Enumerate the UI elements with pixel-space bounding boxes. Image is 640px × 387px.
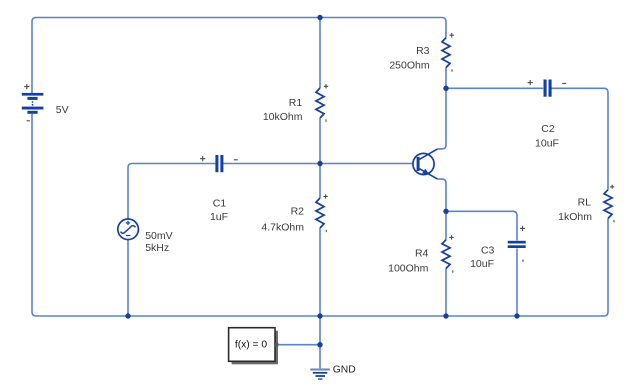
- svg-text:1uF: 1uF: [210, 211, 228, 223]
- transistor Q1 emitter lead: [420, 169, 438, 179]
- wire R1 bottom to node base: [319, 118, 321, 164]
- svg-text:4.7kOhm: 4.7kOhm: [261, 222, 304, 234]
- RL minus tick: [613, 220, 615, 222]
- node base / C1 / R1 / R2: [317, 161, 322, 166]
- svg-text:250Ohm: 250Ohm: [389, 60, 430, 72]
- battery plus mark: [24, 84, 29, 89]
- svg-text:R1: R1: [289, 97, 303, 109]
- svg-text:C2: C2: [541, 123, 555, 135]
- svg-text:R3: R3: [416, 45, 430, 57]
- battery V1 5V: [22, 93, 44, 114]
- C3 minus tick: [522, 260, 524, 262]
- svg-text:C3: C3: [481, 245, 495, 257]
- wire base node to transistor base: [320, 163, 413, 165]
- R3 plus mark: [450, 33, 454, 37]
- capacitor C1 plates: [215, 155, 223, 172]
- capacitor C2 plates: [544, 80, 552, 97]
- svg-text:10uF: 10uF: [470, 258, 494, 270]
- ac source V2: [118, 219, 139, 240]
- svg-text:1kOhm: 1kOhm: [558, 211, 592, 223]
- C2 minus mark: [562, 82, 566, 84]
- wire collector node to C2 left: [446, 87, 543, 89]
- svg-text:5V: 5V: [56, 104, 69, 116]
- svg-text:f(x) = 0: f(x) = 0: [235, 340, 268, 351]
- node R3 / C2 / collector: [443, 86, 448, 91]
- wire R4 bottom to bottom rail: [445, 269, 447, 317]
- svg-text:GND: GND: [333, 364, 356, 375]
- R2 plus mark: [323, 194, 327, 198]
- RL plus mark: [610, 185, 614, 189]
- C1 minus mark: [234, 159, 238, 161]
- svg-text:RL: RL: [578, 197, 592, 209]
- wire f(x) box to gnd column: [278, 344, 320, 346]
- ground symbol: [310, 370, 330, 380]
- battery minus mark: [27, 120, 30, 122]
- wire emitter node to R4 top: [445, 211, 447, 239]
- wire bottom rail to ground: [319, 316, 321, 368]
- C3 plus mark: [520, 226, 525, 231]
- svg-text:5kHz: 5kHz: [145, 242, 169, 254]
- R4 minus tick: [452, 270, 454, 272]
- wire C1 right to base node: [223, 163, 320, 165]
- resistor R3: [442, 38, 450, 68]
- C2 plus mark: [528, 80, 533, 85]
- transistor Q1 circle: [413, 153, 434, 174]
- R2 minus tick: [325, 230, 327, 232]
- resistor RL: [604, 190, 612, 219]
- transistor Q1 emitter arrow: [422, 169, 430, 175]
- svg-text:10kOhm: 10kOhm: [263, 111, 303, 123]
- wire C3 bottom to bottom rail: [516, 248, 518, 316]
- wire R1 top column: [319, 18, 321, 89]
- wire top rail: battery + through top to R3 column: [32, 18, 446, 94]
- resistor R4: [442, 240, 450, 269]
- wire bottom rail: battery - down, across bottom, up to RL bottom: [32, 114, 608, 316]
- resistor R1: [316, 88, 324, 118]
- resistor R2: [316, 198, 324, 228]
- node AC source / bottom rail: [125, 313, 130, 318]
- svg-text:10uF: 10uF: [535, 138, 559, 150]
- wire AC source bottom to bottom rail: [127, 240, 129, 316]
- node emitter / R4 / C3: [443, 209, 448, 214]
- capacitor C3 plates: [508, 241, 526, 248]
- f(x)=0 block: [229, 328, 275, 362]
- wire C2 right across and down to RL top: [551, 88, 608, 189]
- svg-text:C1: C1: [213, 198, 227, 210]
- transistor Q1 collector lead: [420, 149, 438, 159]
- wire AC source up to C1 left: [128, 164, 215, 220]
- node f(x) / gnd wire: [317, 342, 322, 347]
- node R4 / bottom rail: [443, 313, 448, 318]
- R3 minus tick: [451, 69, 453, 71]
- C1 plus mark: [200, 156, 205, 161]
- svg-text:100Ohm: 100Ohm: [388, 262, 429, 274]
- svg-text:R4: R4: [415, 248, 429, 260]
- f(x)=0 connector nub: [275, 343, 278, 346]
- wire node base to R2 top: [319, 164, 321, 199]
- wire emitter node to C3 top: [446, 211, 517, 240]
- R1 minus tick: [325, 119, 327, 121]
- svg-text:50mV: 50mV: [145, 230, 172, 242]
- node top rail / R1: [317, 15, 322, 20]
- f(x)=0 block shadow: [232, 331, 278, 365]
- svg-text:R2: R2: [291, 206, 305, 218]
- wire R3 bottom to collector node: [445, 68, 447, 89]
- R1 plus mark: [324, 84, 328, 88]
- node R2 / bottom rail: [317, 313, 322, 318]
- wire R2 bottom to bottom rail: [319, 228, 321, 316]
- node C3 / bottom rail: [514, 313, 519, 318]
- R4 plus mark: [449, 235, 453, 239]
- transistor Q1 base bar: [417, 157, 420, 171]
